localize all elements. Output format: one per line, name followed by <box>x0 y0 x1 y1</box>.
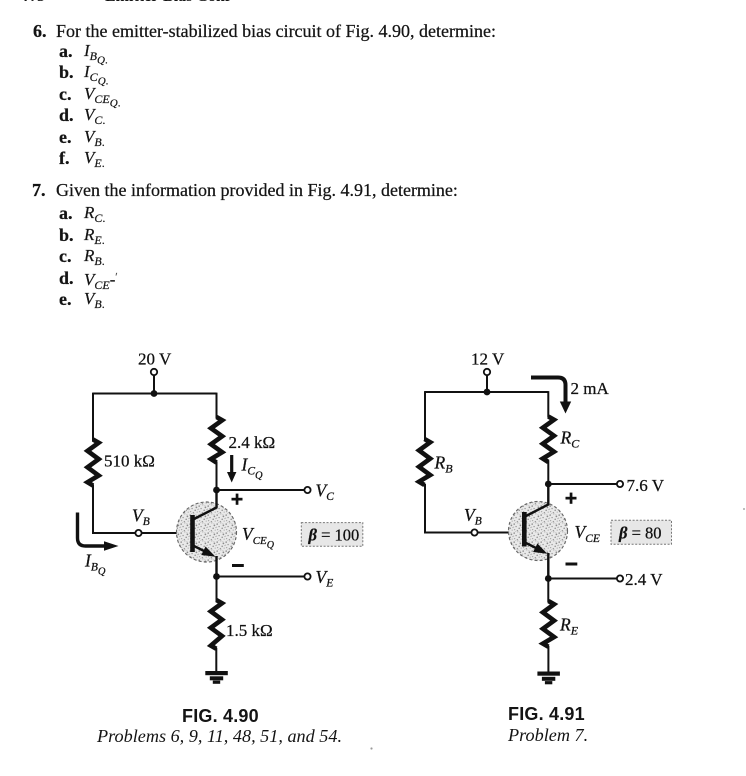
svg-text:20 V: 20 V <box>138 350 172 369</box>
transistor Q1 collector lead <box>193 489 217 520</box>
supply terminal 12V <box>484 369 490 375</box>
label VB <box>132 506 150 529</box>
wire collector rail <box>216 462 218 491</box>
wire left rail upper <box>424 391 426 440</box>
wire to ground <box>547 646 549 672</box>
svg-text:IBQ: IBQ <box>84 551 106 578</box>
current arrow 2 mA <box>531 378 571 414</box>
terminal VB <box>471 529 477 535</box>
scan speck <box>370 747 372 749</box>
svg-text:VCE: VCE <box>575 522 600 545</box>
label 2 mA <box>571 379 610 398</box>
clipped running head at very top <box>0 0 746 5</box>
svg-text:VE: VE <box>316 567 334 590</box>
label 510 kOhm <box>104 452 155 471</box>
scan speck <box>743 508 745 510</box>
current arrow IBQ <box>78 513 119 551</box>
transistor Q2 emitter lead with arrow <box>525 543 549 580</box>
label VB <box>464 505 482 528</box>
label VC <box>316 481 335 504</box>
svg-text:β = 80: β = 80 <box>618 524 662 543</box>
node supply junction <box>151 390 158 397</box>
node supply junction <box>484 389 491 396</box>
transistor Q2 collector lead <box>525 483 548 517</box>
label RB <box>434 453 454 476</box>
svg-text:RC: RC <box>560 428 581 451</box>
resistor RE <box>543 601 554 647</box>
supply terminal 20V <box>151 369 157 375</box>
node emitter <box>545 575 552 582</box>
wire base lead <box>142 532 194 534</box>
wire right rail upper <box>216 393 218 418</box>
svg-text:2.4 V: 2.4 V <box>625 570 663 589</box>
resistor 2.4 kOhm <box>211 417 222 463</box>
terminal VC <box>304 487 310 493</box>
label 1.5 kOhm <box>226 621 273 640</box>
label ICQ <box>241 455 264 482</box>
svg-text:ICQ: ICQ <box>241 455 264 482</box>
terminal VE <box>304 573 310 579</box>
captions <box>182 706 259 727</box>
transistor Q1 emitter lead with arrow <box>193 546 218 578</box>
wire top rail <box>93 393 217 395</box>
wire base lead <box>478 532 526 534</box>
label 7.6 V <box>627 476 665 495</box>
label 2.4 V <box>625 570 663 589</box>
resistor 1.5 kOhm <box>211 600 222 649</box>
wire collector to 7.6V <box>548 483 617 485</box>
terminal VB <box>135 530 141 536</box>
transistor Q1 base bar <box>190 515 195 552</box>
resistor RB <box>419 439 430 485</box>
svg-text:7.6 V: 7.6 V <box>627 476 665 495</box>
svg-text:RE: RE <box>559 615 579 638</box>
svg-text:12 V: 12 V <box>471 350 505 369</box>
node collector <box>213 487 220 494</box>
transistor Q1 body <box>177 502 237 562</box>
plus sign <box>566 493 577 504</box>
wire collector rail <box>547 461 549 484</box>
svg-text:2 mA: 2 mA <box>571 379 610 398</box>
svg-text:VCEQ: VCEQ <box>242 524 275 551</box>
beta box 80 <box>611 520 672 544</box>
label 12 V <box>471 350 505 369</box>
wire emitter rail <box>547 579 549 603</box>
wire left rail lower <box>93 485 139 534</box>
minus sign <box>566 563 578 566</box>
wire emitter to VE <box>217 576 305 578</box>
svg-text:β = 100: β = 100 <box>308 526 360 545</box>
svg-text:VC: VC <box>316 481 335 504</box>
minus sign <box>232 564 244 567</box>
wire top rail <box>425 391 548 393</box>
label VCEQ <box>242 524 275 551</box>
transistor Q2 body <box>509 502 568 561</box>
beta box 100 <box>301 523 363 547</box>
label IBQ <box>84 551 106 578</box>
svg-text:510 kΩ: 510 kΩ <box>104 452 155 471</box>
wire supply stub <box>153 375 155 393</box>
node collector <box>545 481 552 488</box>
resistor RC <box>543 417 554 463</box>
label 2.4 kOhm <box>229 433 276 452</box>
problem 6 <box>33 22 47 40</box>
svg-text:RB: RB <box>434 453 454 476</box>
current arrow ICQ <box>227 455 236 483</box>
ground symbol left <box>205 671 228 684</box>
label RC <box>560 428 581 451</box>
terminal 7.6 V <box>617 481 623 487</box>
ground symbol right <box>537 672 560 685</box>
wire collector to VC <box>217 489 305 491</box>
wire emitter rail <box>216 577 218 602</box>
wire emitter to 2.4V <box>548 578 617 580</box>
svg-text:1.5 kΩ: 1.5 kΩ <box>226 621 273 640</box>
label RE <box>559 615 579 638</box>
svg-text:VB: VB <box>132 506 150 529</box>
terminal 2.4 V <box>617 575 623 581</box>
svg-text:VB: VB <box>464 505 482 528</box>
wire left rail lower <box>425 484 475 533</box>
label VCE <box>575 522 600 545</box>
problem 7 <box>32 181 46 199</box>
wire supply stub <box>486 375 488 392</box>
wire right rail upper <box>547 391 549 417</box>
label 20 V <box>138 350 172 369</box>
plus sign <box>232 494 243 505</box>
svg-text:2.4 kΩ: 2.4 kΩ <box>229 433 276 452</box>
wire left rail upper <box>92 393 94 441</box>
transistor Q2 base bar <box>522 512 527 547</box>
wire to ground <box>215 648 217 672</box>
resistor 510 kOhm <box>88 440 99 486</box>
label VE <box>316 567 334 590</box>
node emitter <box>213 573 220 580</box>
